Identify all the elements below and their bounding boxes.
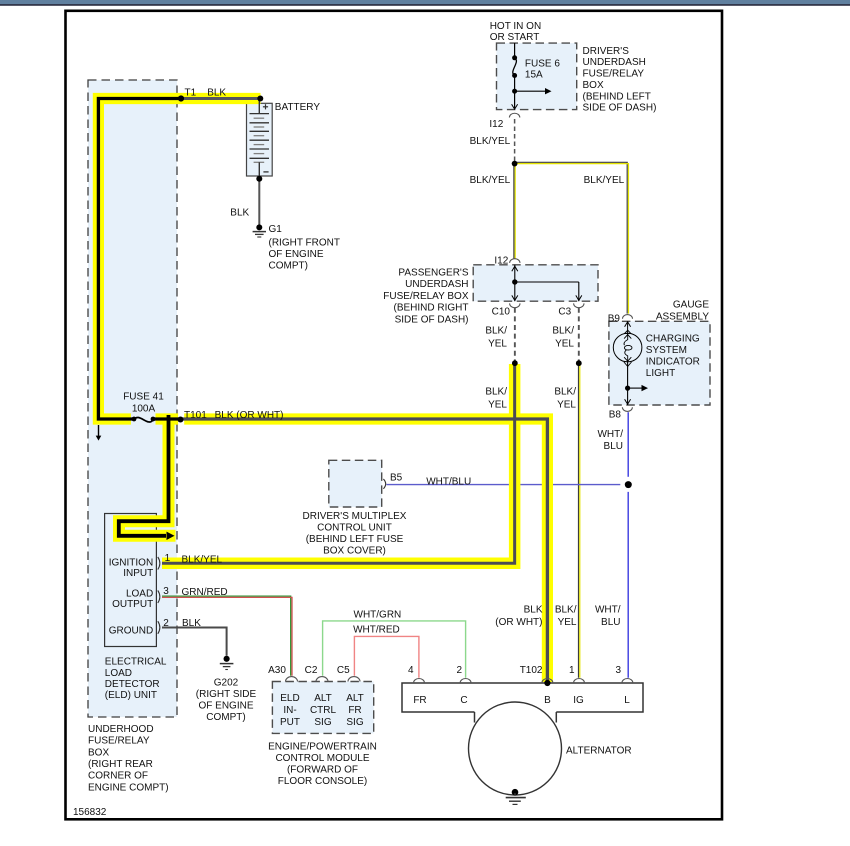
- svg-text:PASSENGER'S: PASSENGER'S: [398, 268, 468, 279]
- svg-text:SYSTEM: SYSTEM: [646, 345, 687, 356]
- svg-text:OUTPUT: OUTPUT: [112, 599, 153, 610]
- svg-text:BOX: BOX: [583, 80, 604, 91]
- svg-text:WHT/BLU: WHT/BLU: [426, 477, 471, 488]
- svg-text:BLK/YEL: BLK/YEL: [470, 175, 511, 186]
- svg-text:(OR WHT): (OR WHT): [495, 617, 542, 628]
- svg-text:1: 1: [569, 665, 575, 676]
- svg-text:C10: C10: [492, 307, 511, 318]
- svg-text:FUSE/RELAY: FUSE/RELAY: [583, 69, 645, 80]
- svg-text:B: B: [544, 695, 551, 706]
- svg-text:ALT: ALT: [314, 693, 332, 704]
- svg-text:FUSE 41: FUSE 41: [123, 392, 164, 403]
- svg-text:(ELD) UNIT: (ELD) UNIT: [105, 690, 157, 701]
- svg-text:BLK: BLK: [207, 88, 226, 99]
- svg-text:100A: 100A: [132, 404, 156, 415]
- svg-text:BOX COVER): BOX COVER): [323, 545, 386, 556]
- svg-text:BLK/: BLK/: [552, 326, 574, 337]
- svg-text:PUT: PUT: [280, 717, 300, 728]
- svg-text:BOX: BOX: [88, 747, 109, 758]
- svg-text:CTRL: CTRL: [310, 705, 337, 716]
- svg-text:SIG: SIG: [346, 717, 363, 728]
- svg-text:UNDERDASH: UNDERDASH: [405, 279, 468, 290]
- svg-text:ASSEMBLY: ASSEMBLY: [656, 311, 709, 322]
- svg-text:SIG: SIG: [314, 717, 331, 728]
- svg-text:ALTERNATOR: ALTERNATOR: [566, 746, 632, 757]
- svg-text:ELECTRICAL: ELECTRICAL: [105, 657, 167, 668]
- svg-text:3: 3: [163, 586, 169, 597]
- svg-text:DRIVER'S: DRIVER'S: [583, 46, 630, 57]
- svg-text:L: L: [624, 695, 630, 706]
- svg-text:(FORWARD OF: (FORWARD OF: [287, 765, 358, 776]
- svg-text:YEL: YEL: [558, 617, 577, 628]
- svg-text:BLK: BLK: [182, 618, 201, 629]
- svg-text:C3: C3: [558, 307, 571, 318]
- svg-text:BLK/YEL: BLK/YEL: [584, 175, 625, 186]
- svg-text:LOAD: LOAD: [105, 668, 132, 679]
- svg-text:DETECTOR: DETECTOR: [105, 679, 160, 690]
- svg-text:ALT: ALT: [346, 693, 364, 704]
- svg-text:INDICATOR: INDICATOR: [646, 356, 700, 367]
- svg-text:GAUGE: GAUGE: [673, 300, 709, 311]
- svg-text:T101: T101: [184, 410, 207, 421]
- svg-text:YEL: YEL: [555, 338, 574, 349]
- svg-text:CHARGING: CHARGING: [646, 333, 700, 344]
- svg-text:FR: FR: [348, 705, 361, 716]
- svg-text:CORNER OF: CORNER OF: [88, 771, 148, 782]
- svg-text:2: 2: [456, 665, 462, 676]
- svg-text:COMPT): COMPT): [269, 260, 308, 271]
- svg-text:BLK/: BLK/: [555, 605, 577, 616]
- svg-text:G202: G202: [214, 678, 239, 689]
- svg-text:YEL: YEL: [488, 400, 507, 411]
- svg-text:4: 4: [408, 665, 414, 676]
- svg-text:BLK: BLK: [230, 208, 249, 219]
- svg-text:(RIGHT FRONT: (RIGHT FRONT: [269, 238, 340, 249]
- svg-text:IG: IG: [573, 695, 584, 706]
- svg-text:156832: 156832: [73, 807, 107, 818]
- svg-text:BLK/YEL: BLK/YEL: [182, 554, 223, 565]
- svg-text:1: 1: [165, 553, 171, 564]
- svg-text:(BEHIND LEFT: (BEHIND LEFT: [583, 91, 651, 102]
- svg-text:BATTERY: BATTERY: [275, 102, 321, 113]
- svg-text:T102: T102: [520, 665, 543, 676]
- svg-text:GRN/RED: GRN/RED: [182, 587, 228, 598]
- svg-text:BLK/: BLK/: [554, 387, 576, 398]
- svg-text:SIDE OF DASH): SIDE OF DASH): [395, 314, 469, 325]
- svg-text:B8: B8: [609, 410, 622, 421]
- svg-text:ELD: ELD: [280, 693, 299, 704]
- svg-text:UNDERDASH: UNDERDASH: [583, 57, 646, 68]
- svg-text:C: C: [460, 695, 467, 706]
- svg-text:B9: B9: [608, 314, 621, 325]
- svg-text:COMPT): COMPT): [206, 712, 245, 723]
- svg-text:WHT/: WHT/: [595, 605, 621, 616]
- svg-text:FUSE 6: FUSE 6: [525, 59, 560, 70]
- svg-text:IN-: IN-: [283, 705, 296, 716]
- svg-text:3: 3: [615, 665, 621, 676]
- svg-text:BLU: BLU: [601, 617, 620, 628]
- svg-text:CONTROL MODULE: CONTROL MODULE: [275, 753, 369, 764]
- svg-text:OF ENGINE: OF ENGINE: [269, 249, 324, 260]
- svg-text:LIGHT: LIGHT: [646, 368, 675, 379]
- svg-text:OR START: OR START: [490, 32, 540, 43]
- svg-text:BLK/: BLK/: [485, 387, 507, 398]
- svg-text:BLK: BLK: [524, 605, 543, 616]
- svg-text:UNDERHOOD: UNDERHOOD: [88, 724, 154, 735]
- svg-text:IGNITION: IGNITION: [109, 558, 153, 569]
- svg-text:FR: FR: [413, 695, 426, 706]
- svg-text:T1: T1: [185, 88, 197, 99]
- svg-text:WHT/RED: WHT/RED: [353, 625, 400, 636]
- svg-text:(BEHIND RIGHT: (BEHIND RIGHT: [394, 303, 469, 314]
- svg-text:(BEHIND LEFT FUSE: (BEHIND LEFT FUSE: [306, 534, 404, 545]
- svg-text:GROUND: GROUND: [109, 626, 153, 637]
- svg-text:CONTROL UNIT: CONTROL UNIT: [317, 522, 392, 533]
- svg-text:DRIVER'S MULTIPLEX: DRIVER'S MULTIPLEX: [303, 511, 407, 522]
- svg-text:SIDE OF DASH): SIDE OF DASH): [583, 103, 657, 114]
- svg-text:WHT/: WHT/: [597, 429, 623, 440]
- svg-text:I12: I12: [494, 256, 508, 267]
- svg-text:B5: B5: [390, 473, 403, 484]
- svg-text:YEL: YEL: [557, 400, 576, 411]
- svg-text:C5: C5: [337, 665, 350, 676]
- svg-text:BLK/: BLK/: [485, 326, 507, 337]
- svg-text:(RIGHT SIDE: (RIGHT SIDE: [196, 689, 257, 700]
- svg-text:WHT/GRN: WHT/GRN: [354, 609, 402, 620]
- svg-text:2: 2: [163, 618, 169, 629]
- svg-text:FUSE/RELAY BOX: FUSE/RELAY BOX: [383, 291, 469, 302]
- svg-text:BLK/YEL: BLK/YEL: [470, 136, 511, 147]
- svg-text:OF ENGINE: OF ENGINE: [198, 701, 253, 712]
- svg-text:C2: C2: [305, 665, 318, 676]
- svg-text:A30: A30: [268, 665, 286, 676]
- svg-text:FLOOR CONSOLE): FLOOR CONSOLE): [278, 776, 367, 787]
- svg-text:ENGINE COMPT): ENGINE COMPT): [88, 782, 169, 793]
- svg-text:(RIGHT REAR: (RIGHT REAR: [88, 759, 153, 770]
- svg-text:LOAD: LOAD: [126, 589, 153, 600]
- svg-text:15A: 15A: [525, 70, 543, 81]
- svg-text:INPUT: INPUT: [123, 568, 153, 579]
- svg-text:YEL: YEL: [488, 338, 507, 349]
- svg-text:BLU: BLU: [604, 441, 623, 452]
- svg-text:FUSE/RELAY: FUSE/RELAY: [88, 736, 150, 747]
- svg-text:HOT IN ON: HOT IN ON: [490, 21, 541, 32]
- svg-text:G1: G1: [269, 224, 283, 235]
- svg-text:ENGINE/POWERTRAIN: ENGINE/POWERTRAIN: [268, 742, 377, 753]
- svg-text:BLK (OR WHT): BLK (OR WHT): [215, 410, 284, 421]
- svg-text:I12: I12: [489, 119, 503, 130]
